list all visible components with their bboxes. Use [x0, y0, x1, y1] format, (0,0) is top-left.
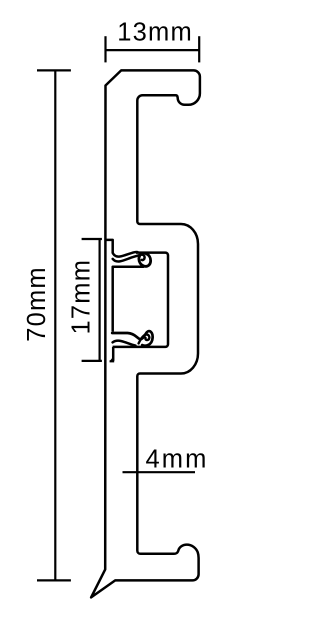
svg-text:4mm: 4mm [146, 445, 209, 473]
svg-text:17mm: 17mm [68, 259, 96, 335]
svg-text:13mm: 13mm [117, 18, 193, 46]
svg-text:70mm: 70mm [23, 266, 51, 342]
